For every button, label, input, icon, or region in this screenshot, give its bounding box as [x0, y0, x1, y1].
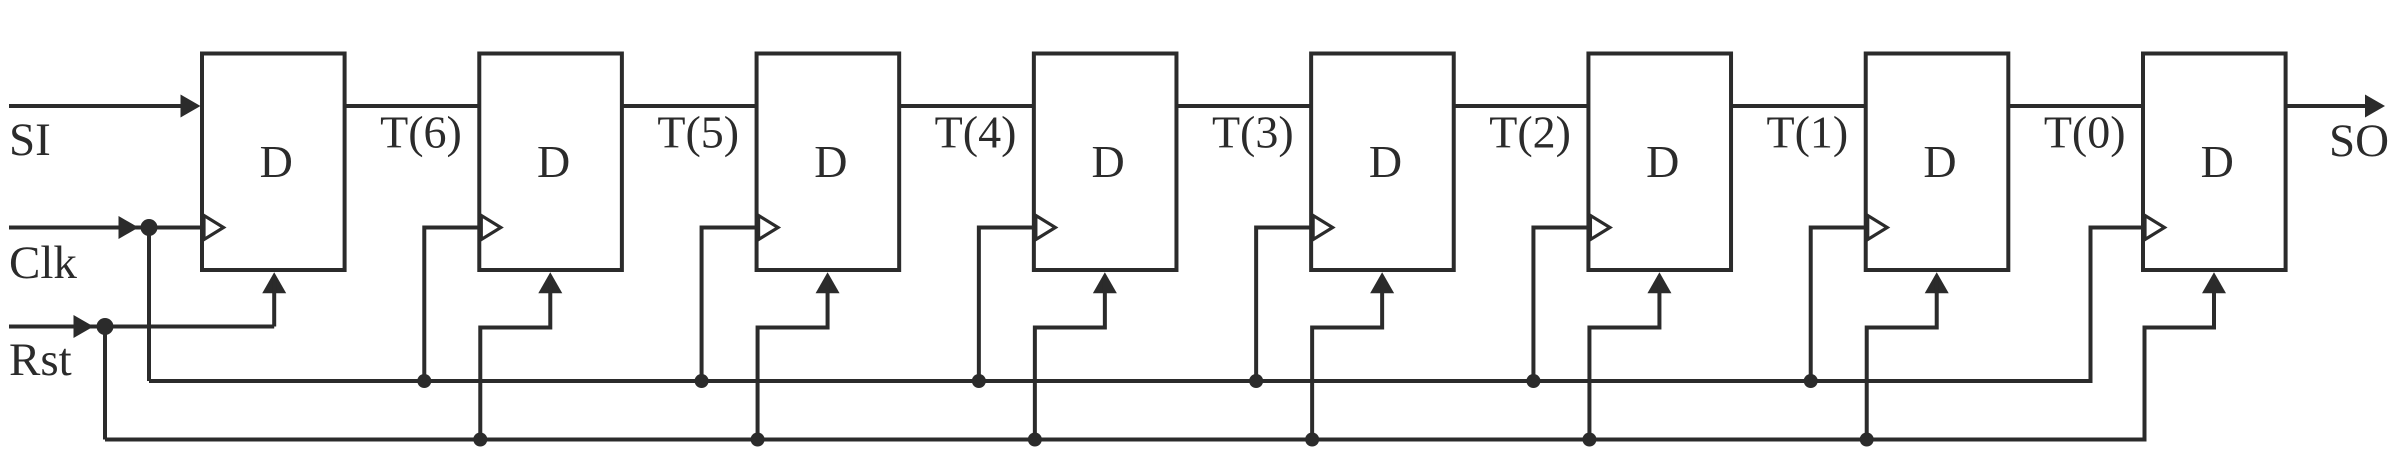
- clock pin triangle of FF6: [1590, 216, 1610, 240]
- wire Rst riser into FF7 bottom: [1867, 276, 1937, 440]
- svg-text:D: D: [260, 136, 293, 187]
- reset pin arrowhead into bottom of FF2: [538, 272, 562, 293]
- svg-text:Rst: Rst: [9, 334, 72, 386]
- junction dot Rst bus tap FF4: [1028, 433, 1042, 447]
- wire Clk riser to FF5 clock pin: [1256, 228, 1311, 382]
- node SI label: [9, 114, 51, 166]
- D flip-flop FF5: [1311, 54, 1454, 271]
- wire Clk riser to FF6 clock pin: [1533, 228, 1588, 382]
- svg-text:T(3): T(3): [1212, 107, 1294, 158]
- wire Clk riser to FF2 clock pin: [424, 228, 479, 382]
- svg-text:D: D: [2201, 136, 2234, 187]
- pin label D of FF3: [814, 136, 847, 187]
- wire Rst riser into FF5 bottom: [1312, 276, 1382, 440]
- pin label D of FF1: [260, 136, 293, 187]
- wire Clk input with arrowhead: [9, 216, 202, 239]
- clock pin triangle of FF4: [1036, 216, 1056, 240]
- svg-text:D: D: [1092, 136, 1125, 187]
- junction dot Clk bus tap FF6: [1526, 374, 1540, 388]
- junction dot Clk bus tap FF2: [417, 374, 431, 388]
- wire Rst riser into FF4 bottom: [1035, 276, 1105, 440]
- junction dot Rst bus tap FF3: [751, 433, 765, 447]
- wire Clk distribution bus: [149, 379, 2091, 383]
- clock pin triangle of FF5: [1313, 216, 1333, 240]
- reset pin arrowhead into bottom of FF4: [1093, 272, 1117, 293]
- wire T(3) from FF4 Q to FF5 D: [1176, 104, 1311, 108]
- wire Rst riser into FF2 bottom: [480, 276, 550, 440]
- reset pin arrowhead into bottom of FF3: [816, 272, 840, 293]
- wire Rst distribution bus: [105, 438, 2145, 442]
- wire Rst riser into FF3 bottom: [758, 276, 828, 440]
- reset pin arrowhead into bottom of FF8: [2202, 272, 2226, 293]
- pin label D of FF4: [1092, 136, 1125, 187]
- svg-text:D: D: [1923, 136, 1956, 187]
- node Rst label: [9, 334, 72, 386]
- D flip-flop FF3: [757, 54, 900, 271]
- svg-text:D: D: [1369, 136, 1402, 187]
- wire SO output with arrowhead: [2286, 95, 2385, 118]
- wire Clk riser to FF8 clock pin: [2091, 228, 2144, 384]
- D flip-flop FF6: [1588, 54, 1731, 271]
- svg-text:T(0): T(0): [2044, 107, 2126, 158]
- D flip-flop FF1: [202, 54, 345, 271]
- wire Rst riser into FF1 bottom: [272, 276, 276, 327]
- wire T(5) from FF2 Q to FF3 D: [622, 104, 757, 108]
- junction dot Clk bus tap FF5: [1249, 374, 1263, 388]
- node T(6) label: [380, 107, 462, 158]
- pin label D of FF6: [1646, 136, 1679, 187]
- node T(5) label: [657, 107, 739, 158]
- junction dot Rst bus tap FF5: [1305, 433, 1319, 447]
- clock pin triangle of FF1: [204, 216, 224, 240]
- svg-text:T(4): T(4): [935, 107, 1017, 158]
- node T(4) label: [935, 107, 1017, 158]
- junction dot Clk bus tap FF3: [695, 374, 709, 388]
- svg-text:SI: SI: [9, 114, 51, 166]
- D flip-flop FF4: [1034, 54, 1177, 271]
- junction dot Clk input: [141, 219, 158, 236]
- svg-text:D: D: [1646, 136, 1679, 187]
- svg-text:T(2): T(2): [1489, 107, 1571, 158]
- reset pin arrowhead into bottom of FF5: [1370, 272, 1394, 293]
- junction dot Rst bus tap FF7: [1860, 433, 1874, 447]
- junction dot Rst bus tap FF2: [473, 433, 487, 447]
- pin label D of FF5: [1369, 136, 1402, 187]
- reset pin arrowhead into bottom of FF1: [262, 272, 286, 293]
- D flip-flop FF2: [479, 54, 622, 271]
- node T(2) label: [1489, 107, 1571, 158]
- D flip-flop FF7: [1866, 54, 2009, 271]
- node T(3) label: [1212, 107, 1294, 158]
- svg-text:D: D: [814, 136, 847, 187]
- clock pin triangle of FF3: [759, 216, 779, 240]
- svg-text:T(5): T(5): [657, 107, 739, 158]
- svg-text:T(6): T(6): [380, 107, 462, 158]
- junction dot Clk bus tap FF4: [972, 374, 986, 388]
- svg-text:SO: SO: [2329, 115, 2389, 167]
- clock pin triangle of FF8: [2145, 216, 2165, 240]
- node T(1) label: [1767, 107, 1849, 158]
- wire T(4) from FF3 Q to FF4 D: [899, 104, 1034, 108]
- node Clk label: [9, 237, 77, 289]
- pin label D of FF7: [1923, 136, 1956, 187]
- wire T(1) from FF6 Q to FF7 D: [1731, 104, 1866, 108]
- wire Clk drop to clock bus: [147, 228, 151, 382]
- junction dot Rst input: [97, 318, 114, 335]
- junction dot Clk bus tap FF7: [1804, 374, 1818, 388]
- svg-text:T(1): T(1): [1767, 107, 1849, 158]
- junction dot Rst bus tap FF6: [1582, 433, 1596, 447]
- clock pin triangle of FF7: [1868, 216, 1888, 240]
- wire Clk riser to FF3 clock pin: [702, 228, 757, 382]
- wire Rst input with arrowhead: [9, 315, 274, 338]
- wire Rst riser into FF8 bottom: [2145, 276, 2215, 442]
- wire T(2) from FF5 Q to FF6 D: [1454, 104, 1589, 108]
- wire T(6) from FF1 Q to FF2 D: [345, 104, 480, 108]
- reset pin arrowhead into bottom of FF6: [1647, 272, 1671, 293]
- D flip-flop FF8: [2143, 54, 2286, 271]
- clock pin triangle of FF2: [481, 216, 501, 240]
- wire Rst drop to reset bus: [103, 327, 107, 440]
- wire SI input with arrowhead into FF1: [9, 95, 201, 118]
- svg-text:Clk: Clk: [9, 237, 77, 289]
- wire T(0) from FF7 Q to FF8 D: [2008, 104, 2143, 108]
- pin label D of FF8: [2201, 136, 2234, 187]
- wire Clk riser to FF4 clock pin: [979, 228, 1034, 382]
- wire Rst riser into FF6 bottom: [1589, 276, 1659, 440]
- reset pin arrowhead into bottom of FF7: [1925, 272, 1949, 293]
- node SO label: [2329, 115, 2389, 167]
- svg-text:D: D: [537, 136, 570, 187]
- node T(0) label: [2044, 107, 2126, 158]
- pin label D of FF2: [537, 136, 570, 187]
- wire Clk riser to FF7 clock pin: [1811, 228, 1866, 382]
